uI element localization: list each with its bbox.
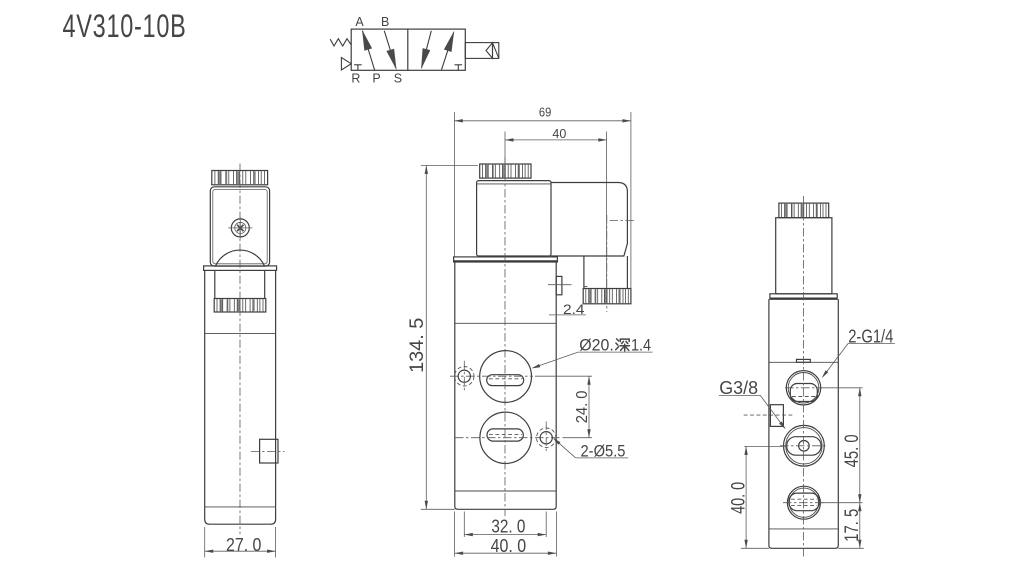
svg-text:40: 40: [552, 126, 566, 141]
dimension 69: [454, 105, 631, 304]
svg-text:27. 0: 27. 0: [226, 535, 261, 555]
upper crosshair: [450, 375, 533, 377]
middle view side tab 2.4: [548, 276, 572, 294]
middle view body seam: [455, 322, 556, 324]
right view top plate: [770, 294, 837, 299]
svg-text:40. 0: 40. 0: [491, 536, 526, 556]
mounting hole right: [537, 422, 556, 453]
right view centerline: [803, 196, 805, 559]
left view DIN connector body: [210, 187, 269, 266]
right view side port boss: [770, 405, 783, 427]
left view top plate: [204, 266, 277, 271]
middle view connector horizontal centerline: [610, 220, 635, 222]
return spring: [330, 39, 351, 46]
svg-text:17. 5: 17. 5: [842, 509, 863, 542]
right view body seam: [769, 361, 838, 363]
dimension 40.0 bottom: [455, 512, 557, 557]
middle view solenoid body: [477, 181, 551, 256]
middle view top plate: [454, 257, 558, 262]
middle view valve body: [455, 262, 556, 509]
svg-text:45. 0: 45. 0: [842, 434, 863, 467]
svg-text:B: B: [381, 15, 389, 29]
solenoid actuator symbol: [465, 43, 499, 59]
svg-text:S: S: [394, 72, 402, 86]
port slot upper hidden line: [489, 378, 522, 380]
flow path B to S with arrow: [384, 31, 396, 70]
flow path right cell down arrow: [421, 31, 431, 70]
middle view solenoid cap knurl: [480, 164, 531, 178]
svg-text:24. 0: 24. 0: [574, 390, 591, 423]
right view solenoid body: [776, 218, 832, 294]
middle view DIN connector: [551, 183, 627, 257]
label diameter 20 depth 1.4: [532, 336, 653, 369]
blocked port T left: [354, 65, 362, 71]
label G3/8: [719, 378, 786, 429]
lower crosshair: [455, 437, 562, 439]
134.5 bottom extension: [421, 508, 455, 510]
label 2-G1/4: [822, 327, 895, 378]
middle view connector centerline: [606, 215, 608, 312]
port slot lower: [487, 429, 523, 441]
left view valve body: [205, 270, 276, 524]
dimension 32.0: [464, 512, 546, 538]
right view port hole middle (G3/8): [780, 425, 828, 466]
dimension 45.0: [821, 388, 863, 503]
middle view coil nut knurl: [583, 289, 631, 304]
dimension 27.0: [205, 527, 276, 558]
right view base seam: [769, 528, 838, 530]
left view side tab: [260, 439, 278, 463]
dimension 134.5: [406, 165, 478, 509]
svg-text:P: P: [372, 72, 380, 86]
port slot lower hidden line: [489, 434, 522, 436]
left view center screw: [228, 217, 252, 238]
dimension 24.0: [535, 376, 592, 438]
middle view connector neck: [584, 256, 628, 289]
port boss circle lower: [480, 412, 531, 463]
right view port hole bottom: [783, 486, 825, 519]
left view tab hidden centerline: [251, 450, 285, 452]
port boss circle upper: [480, 351, 532, 403]
middle view base seam: [455, 490, 556, 492]
left view connector inner outline: [213, 189, 267, 263]
middle view centerline: [504, 157, 506, 516]
svg-text:A: A: [355, 15, 364, 29]
dimension 40 top: [505, 126, 607, 290]
left view connector dome arc: [216, 250, 265, 266]
label 2-dia 5.5: [553, 438, 628, 461]
left view centerline: [239, 164, 241, 535]
left view coil neck: [215, 270, 265, 298]
dimension 17.5: [820, 503, 863, 549]
left view body seam: [205, 332, 276, 334]
svg-text:4V310-10B: 4V310-10B: [63, 8, 187, 44]
right view valve body: [769, 299, 838, 548]
left view solenoid cap knurl: [212, 171, 268, 185]
flow path P to A with arrow: [362, 30, 375, 71]
svg-text:69: 69: [539, 105, 551, 120]
label 2.4: [549, 301, 586, 317]
flow path right cell up arrow: [442, 31, 455, 70]
mounting hole left: [455, 361, 474, 392]
left view coil nut knurl: [214, 299, 266, 313]
right view seam tab: [797, 359, 811, 362]
right view solenoid cap knurl: [779, 203, 829, 218]
dimension 40.0 right view: [728, 446, 786, 548]
svg-text:134. 5: 134. 5: [406, 318, 428, 373]
svg-text:32. 0: 32. 0: [491, 517, 525, 537]
svg-text:40. 0: 40. 0: [728, 482, 749, 514]
svg-text:R: R: [351, 72, 360, 86]
manual override triangle: [341, 58, 351, 71]
port slot upper: [487, 375, 524, 386]
valve symbol body (5/2 boxes): [351, 29, 465, 70]
blocked port T right: [455, 65, 463, 71]
right view side port hidden line: [744, 414, 793, 416]
right view port hole top (G1/4): [785, 371, 822, 405]
left view base seam: [205, 506, 276, 508]
